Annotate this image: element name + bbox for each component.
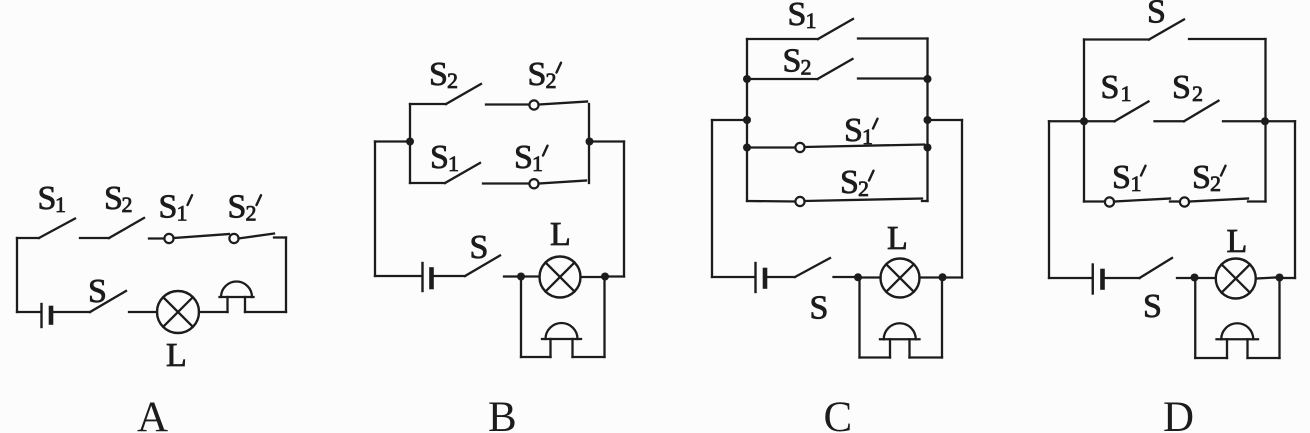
svg-text:S: S: [844, 112, 863, 149]
wire: D switch S to node: [1177, 277, 1191, 279]
svg-text:1: 1: [1121, 81, 1132, 106]
switch S1' blade: [174, 234, 230, 238]
svg-text:L: L: [887, 220, 908, 257]
switch S1' pivot circle: [164, 234, 173, 243]
wire: D right tap: [1265, 120, 1295, 122]
lamp L circle (C): [881, 259, 920, 298]
switch S2' blade (B): [539, 102, 588, 105]
svg-text:S: S: [514, 139, 533, 176]
switch S2' pivot circle (D): [1180, 197, 1189, 206]
wire: C inner right rail: [926, 39, 928, 202]
lamp L cross stroke 1 (D): [1222, 264, 1250, 292]
wire: B bell branch bottom left: [521, 356, 551, 358]
wire: D battery to switch S: [1105, 277, 1140, 279]
svg-text:2: 2: [801, 55, 812, 80]
lamp L cross stroke 2: [163, 297, 193, 327]
wire: C S2' branch lead-in: [747, 200, 796, 203]
svg-text:S: S: [788, 0, 807, 33]
wire: B bottom lead to battery: [375, 275, 421, 277]
battery negative plate: [49, 308, 54, 323]
wire: D left tap: [1049, 120, 1084, 122]
wire: D top branch lead-out: [1189, 38, 1266, 40]
wire: B battery to switch S: [434, 275, 465, 277]
node: C S2 left dot: [743, 75, 751, 83]
switch S1 blade: [39, 219, 75, 239]
svg-text:2: 2: [447, 68, 458, 93]
wire: C S2 branch lead-out: [858, 77, 928, 79]
lamp L cross stroke 2 (C): [886, 264, 914, 292]
wire: C bottom lead to battery: [712, 276, 754, 278]
switch S2 blade: [109, 218, 144, 238]
wire: C bell branch bottom right: [910, 356, 943, 358]
wire: D between S1' and S2': [1170, 200, 1180, 202]
wire: A lamp to bell: [199, 311, 228, 313]
wire: B node to right rail: [609, 275, 624, 277]
bell base (C): [880, 338, 920, 340]
wire: B inner left rail: [409, 104, 411, 183]
battery positive plate (B): [421, 263, 423, 291]
bell left leg (C): [889, 339, 891, 357]
switch S blade (C): [795, 258, 830, 277]
switch S1' pivot circle (B): [529, 179, 538, 188]
svg-text:S: S: [810, 290, 829, 327]
wire: D outer left rail: [1048, 121, 1050, 278]
lamp L circle (D): [1216, 259, 1256, 299]
switch S blade: [90, 291, 126, 312]
wire: C node to right rail: [947, 276, 963, 278]
wire: D bell branch bottom left: [1195, 357, 1227, 359]
wire: B bell branch bottom right: [573, 356, 605, 358]
svg-text:1: 1: [448, 151, 459, 176]
node: B right junction dot: [586, 138, 594, 146]
bell dome (C): [884, 323, 916, 339]
wire: D top branch lead-in: [1084, 38, 1149, 40]
switch S2' pivot circle: [229, 234, 238, 243]
wire: D bottom branch lead-in: [1084, 200, 1105, 202]
node: C S1' left dot: [743, 144, 751, 152]
svg-text:2: 2: [122, 192, 133, 217]
node: C left tap dot: [743, 116, 751, 124]
node: C right tap dot: [924, 116, 932, 124]
wire: A top lead-out: [274, 236, 286, 238]
switch S1 blade (D): [1115, 102, 1149, 122]
switch S1' blade (C): [805, 145, 925, 148]
wire: D bottom branch lead-out: [1248, 200, 1266, 202]
wire: D between S1 and S2: [1155, 120, 1185, 122]
wire: B inner right rail: [588, 104, 590, 183]
wire: C switch S to node: [834, 276, 855, 278]
node: D right junction dot: [1261, 117, 1269, 125]
wire: D lamp to node: [1256, 278, 1276, 279]
svg-text:1: 1: [177, 201, 188, 226]
svg-text:S: S: [159, 189, 178, 226]
svg-text:1: 1: [532, 151, 543, 176]
node: B left junction dot: [406, 138, 414, 146]
battery positive plate: [40, 304, 42, 327]
wire: D inner right rail: [1264, 39, 1266, 202]
node: D left junction dot: [1080, 117, 1088, 125]
switch S1' blade (D): [1114, 199, 1170, 202]
wire: B left tap: [375, 140, 410, 142]
switch S blade (D top): [1149, 20, 1184, 40]
switch S2' blade (D): [1189, 199, 1248, 202]
wire: D bell branch left vertical: [1194, 278, 1196, 359]
bell base (B): [542, 338, 581, 340]
switch S blade (D bottom): [1140, 258, 1173, 278]
wire: A switch S to lamp: [129, 311, 157, 313]
battery negative plate (C): [763, 270, 768, 287]
wire: A top lead-in: [17, 237, 39, 239]
wire: C right tap: [928, 119, 963, 121]
bell left leg: [226, 297, 228, 312]
node: C lamp left dot: [854, 273, 862, 281]
switch S2' pivot circle (B): [529, 100, 538, 109]
wire: B between S1 and S1': [483, 182, 530, 184]
svg-text:S: S: [470, 229, 489, 266]
wire: B switch S to node: [504, 275, 517, 277]
battery positive plate (C): [754, 263, 756, 292]
wire: B bell branch left vertical: [520, 277, 522, 358]
svg-text:S: S: [1143, 288, 1162, 325]
svg-text:S: S: [38, 180, 57, 217]
bell right leg (B): [571, 339, 573, 357]
wire: D outer right rail: [1294, 121, 1296, 278]
battery negative plate (B): [429, 270, 434, 288]
bell dome (D): [1221, 323, 1253, 339]
battery negative plate (D): [1100, 271, 1105, 288]
svg-text:2: 2: [546, 68, 557, 93]
bell left leg (B): [549, 339, 551, 357]
wire: D mid branch lead-in: [1084, 120, 1115, 122]
switch S blade (B): [465, 256, 500, 277]
node: D lamp left dot: [1191, 274, 1199, 282]
node: C S1' right dot: [924, 144, 932, 152]
wire: A left rail: [16, 238, 18, 312]
wire: D inner left rail: [1083, 40, 1085, 202]
svg-text:S: S: [783, 43, 802, 80]
svg-text:A: A: [137, 394, 168, 433]
bell base (D): [1217, 338, 1259, 340]
bell dome (B): [546, 323, 578, 339]
svg-text:D: D: [1163, 394, 1194, 433]
wire: B node to lamp: [525, 275, 540, 277]
wire: A bell to right rail: [245, 311, 286, 313]
svg-text:1: 1: [806, 8, 817, 33]
svg-text:2: 2: [858, 176, 869, 201]
switch S2 blade (C): [818, 59, 853, 79]
wire: B outer left rail: [374, 142, 376, 277]
wire: A right rail: [285, 238, 287, 313]
svg-text:L: L: [550, 216, 571, 253]
wire: C node to lamp: [862, 276, 881, 278]
wire: A between S1 and S2: [80, 237, 109, 239]
svg-text:S: S: [528, 56, 547, 93]
wire: C S1 branch lead-in: [747, 38, 818, 40]
wire: A bottom lead to battery: [17, 311, 40, 313]
wire: B bell branch right vertical: [603, 277, 605, 358]
node: B lamp right dot: [601, 273, 609, 281]
svg-text:S: S: [1112, 159, 1131, 196]
lamp L cross stroke 1: [163, 297, 193, 327]
wire: B between S2 and S2': [486, 103, 530, 105]
svg-text:1: 1: [862, 124, 873, 149]
svg-text:1: 1: [1131, 171, 1142, 196]
wire: B top branch lead-in: [410, 103, 446, 105]
wire: A between S2 and S1': [149, 237, 165, 239]
svg-text:B: B: [488, 394, 517, 433]
lamp L cross stroke 2 (B): [546, 263, 575, 292]
switch S2 blade (B): [446, 84, 481, 104]
wire: B lower branch lead-in: [410, 182, 445, 184]
wire: D mid branch lead-out: [1223, 120, 1265, 122]
bell dome: [221, 281, 252, 297]
node: C lamp right dot: [939, 273, 947, 281]
wire: D bell branch right vertical: [1278, 278, 1280, 359]
wire: D node to right rail: [1284, 277, 1296, 279]
wire: C bell branch bottom left: [860, 356, 891, 358]
switch S2 blade (D): [1184, 101, 1219, 122]
wire: C S2 branch lead-in: [747, 78, 818, 80]
switch S1 blade (C): [818, 19, 853, 39]
bell base: [220, 296, 254, 298]
wire: A battery to switch S: [54, 311, 91, 313]
switch S1 blade (B): [445, 163, 480, 183]
switch S2' blade: [239, 234, 275, 239]
svg-text:S: S: [840, 164, 859, 201]
svg-text:2: 2: [1210, 171, 1221, 196]
wire: C left tap: [712, 119, 747, 121]
lamp L cross stroke 1 (B): [546, 263, 575, 292]
svg-text:S: S: [1172, 69, 1191, 106]
wire: D bell branch bottom right: [1248, 357, 1280, 359]
lamp L circle: [157, 291, 199, 333]
node: C S2 right dot: [924, 75, 932, 83]
switch S2' pivot circle (C): [795, 197, 804, 206]
svg-text:L: L: [166, 337, 187, 374]
svg-text:S: S: [429, 56, 448, 93]
switch S1' pivot circle (C): [795, 143, 804, 152]
wire: B outer right rail: [623, 142, 625, 277]
svg-text:S: S: [1101, 69, 1120, 106]
wire: D node to lamp: [1199, 277, 1216, 279]
svg-text:S: S: [1147, 0, 1166, 31]
node: B lamp left dot: [517, 273, 525, 281]
wire: B lamp to node: [581, 276, 602, 278]
wire: C S2' branch lead-out: [922, 200, 928, 202]
switch S2' blade (C): [805, 199, 923, 202]
svg-text:S: S: [88, 273, 107, 310]
bell right leg (C): [908, 339, 910, 357]
wire: C bell branch left vertical: [858, 278, 860, 358]
wire: C lamp to node: [920, 276, 939, 278]
node: D lamp right dot: [1276, 274, 1284, 282]
svg-text:S: S: [430, 139, 449, 176]
bell right leg: [244, 297, 246, 312]
lamp L cross stroke 2 (D): [1222, 264, 1250, 292]
svg-text:1: 1: [55, 192, 66, 217]
wire: D bottom lead to battery: [1049, 277, 1092, 279]
wire: C bell branch right vertical: [941, 277, 943, 357]
svg-text:L: L: [1227, 223, 1248, 260]
lamp L cross stroke 1 (C): [886, 264, 914, 292]
wire: C outer left rail: [711, 120, 713, 277]
wire: C inner left rail: [746, 39, 748, 201]
lamp L circle (B): [540, 257, 581, 298]
svg-text:S: S: [228, 189, 247, 226]
bell left leg (D): [1226, 339, 1228, 358]
battery positive plate (D): [1092, 265, 1094, 294]
wire: B right tap: [590, 140, 625, 142]
switch S1' blade (B): [539, 181, 587, 184]
wire: C S1' branch lead-in: [747, 146, 796, 148]
svg-text:S: S: [104, 180, 123, 217]
wire: C outer right rail: [961, 120, 963, 278]
svg-text:C: C: [824, 394, 853, 433]
wire: C battery to switch S: [768, 276, 796, 278]
svg-text:2: 2: [246, 201, 257, 226]
wire: C S1 branch lead-out: [858, 37, 928, 39]
svg-text:S: S: [1192, 159, 1211, 196]
svg-text:2: 2: [1192, 81, 1203, 106]
bell right leg (D): [1246, 339, 1248, 358]
switch S1' pivot circle (D): [1105, 197, 1114, 206]
